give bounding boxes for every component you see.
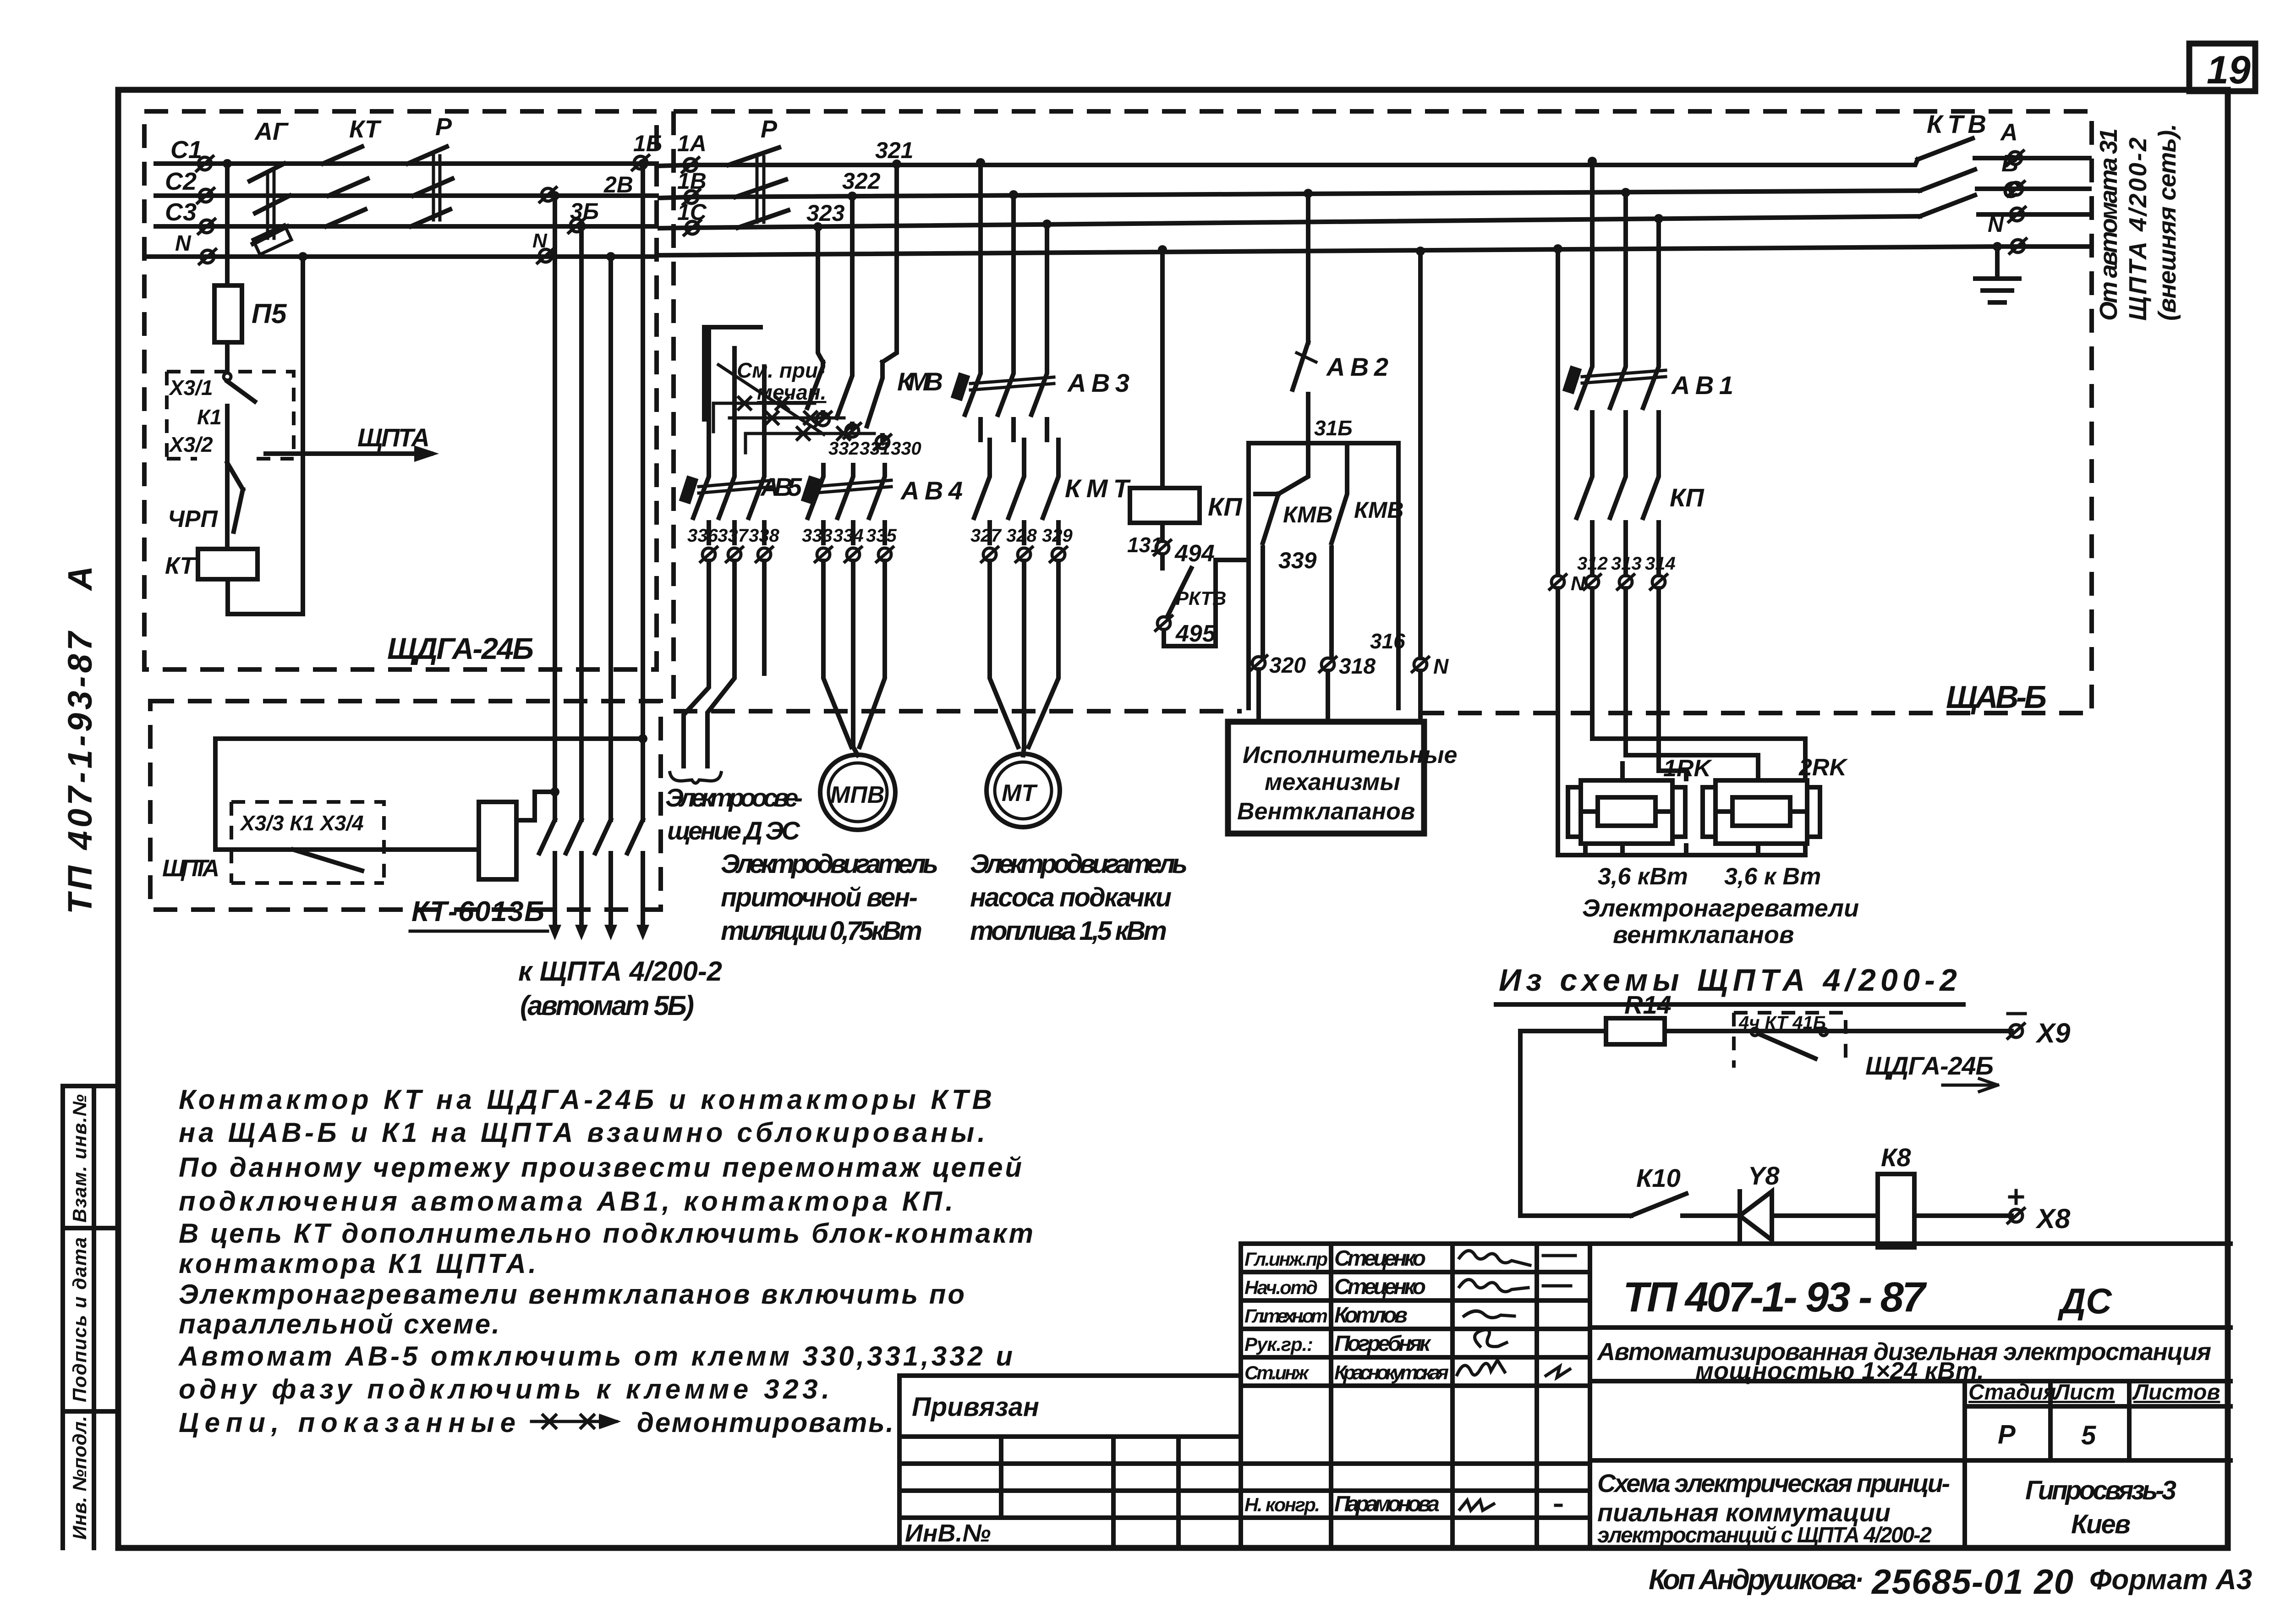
dashed enclosure SchDGA-24B bbox=[144, 111, 657, 669]
svg-text:приточной вен-: приточной вен- bbox=[721, 883, 918, 912]
svg-text:N: N bbox=[532, 230, 548, 252]
terminal 336 bbox=[701, 547, 717, 562]
terminal N heater bbox=[1550, 575, 1566, 589]
wires AB4 to motor MPV bbox=[823, 561, 885, 755]
title block: privyazan box grid bbox=[899, 1376, 1590, 1548]
wires to lighting bbox=[684, 561, 764, 766]
svg-text:В: В bbox=[2001, 150, 2019, 177]
terminal C right bbox=[2009, 207, 2025, 222]
arrows at feeder ends bbox=[548, 925, 649, 940]
contact KT aux bbox=[1751, 1028, 1759, 1036]
left margin column boxes bbox=[63, 1086, 118, 1548]
svg-text:1В: 1В bbox=[677, 168, 707, 194]
wires KMT to motor MT bbox=[990, 561, 1058, 755]
svg-text:АВ3: АВ3 bbox=[1067, 368, 1129, 397]
svg-text:ЩДГА-24Б: ЩДГА-24Б bbox=[1865, 1051, 1994, 1080]
svg-text:ЩДГА-24Б: ЩДГА-24Б bbox=[387, 631, 534, 665]
terminal 320 bbox=[1250, 656, 1267, 670]
dash marks in sig table bbox=[1543, 1256, 1575, 1505]
svg-text:Электродвигатель: Электродвигатель bbox=[970, 849, 1188, 879]
svg-text:1RK: 1RK bbox=[1663, 755, 1712, 782]
contact K1 bbox=[224, 373, 231, 380]
svg-text:Погребняк: Погребняк bbox=[1334, 1332, 1432, 1356]
terminal X9 bbox=[2008, 1024, 2024, 1038]
svg-text:495: 495 bbox=[1175, 620, 1216, 647]
svg-text:Стеценко: Стеценко bbox=[1334, 1246, 1426, 1271]
svg-text:3,6 кВт: 3,6 кВт bbox=[1598, 863, 1688, 890]
notes paragraph bbox=[178, 1084, 1033, 1438]
svg-text:КМВ: КМВ bbox=[1283, 502, 1333, 527]
svg-text:N: N bbox=[175, 231, 192, 256]
heater feed wires bbox=[1558, 588, 1805, 855]
svg-text:топлива 1,5 кВт: топлива 1,5 кВт bbox=[970, 916, 1167, 946]
svg-text:Взам. инв.№: Взам. инв.№ bbox=[69, 1094, 90, 1223]
svg-text:ДС: ДС bbox=[2057, 1281, 2112, 1321]
svg-text:Y8: Y8 bbox=[1748, 1161, 1780, 1190]
svg-text:К10: К10 bbox=[1636, 1163, 1681, 1192]
svg-text:Исполнительные: Исполнительные bbox=[1243, 742, 1457, 768]
terminal C1 bbox=[197, 156, 213, 171]
terminal N right bbox=[2010, 239, 2026, 253]
bus SchPTA arrow bbox=[266, 451, 431, 456]
svg-text:РКТВ: РКТВ bbox=[1176, 587, 1226, 609]
svg-text:ЩПТА: ЩПТА bbox=[162, 855, 219, 882]
svg-text:327: 327 bbox=[970, 526, 1002, 546]
svg-text:313: 313 bbox=[1611, 554, 1642, 574]
motor MPV bbox=[820, 755, 895, 830]
svg-text:333: 333 bbox=[802, 526, 833, 546]
svg-text:X9: X9 bbox=[2035, 1018, 2071, 1048]
svg-text:Р: Р bbox=[435, 113, 452, 141]
bus C1 (left box) bbox=[156, 161, 657, 166]
svg-text:насоса подкачки: насоса подкачки bbox=[970, 883, 1172, 912]
svg-text:АВ1: АВ1 bbox=[1671, 371, 1733, 400]
terminal 494 bbox=[1160, 523, 1165, 541]
contactor KT-60 coil bbox=[479, 802, 516, 879]
svg-text:См. при-: См. при- bbox=[737, 358, 825, 382]
brace lighting bbox=[670, 773, 721, 783]
bus 1C (right box) bbox=[660, 216, 1920, 228]
svg-text:19: 19 bbox=[2207, 48, 2251, 92]
svg-text:ТП 407-1- 93 - 87: ТП 407-1- 93 - 87 bbox=[1623, 1274, 1927, 1321]
svg-text:пиальная коммутации: пиальная коммутации bbox=[1597, 1498, 1891, 1527]
svg-text:339: 339 bbox=[1278, 548, 1317, 573]
svg-text:Р: Р bbox=[761, 115, 778, 143]
svg-text:338: 338 bbox=[749, 526, 779, 546]
coil KP feed bbox=[1158, 245, 1167, 254]
wire C1 down to fuse P5 bbox=[225, 164, 230, 285]
terminal 333 bbox=[815, 547, 832, 562]
terminal 313 bbox=[1617, 575, 1634, 589]
signature rows text bbox=[1244, 1246, 1449, 1516]
svg-text:щение Д ЭС: щение Д ЭС bbox=[667, 816, 801, 845]
svg-text:316: 316 bbox=[1370, 629, 1405, 653]
terminal 314 bbox=[1650, 575, 1667, 589]
svg-text:1С: 1С bbox=[677, 199, 707, 225]
terminal 495 bbox=[1156, 616, 1172, 631]
terminal B right bbox=[2008, 181, 2024, 196]
svg-text:К1: К1 bbox=[197, 405, 222, 429]
svg-text:X3/2: X3/2 bbox=[168, 433, 213, 456]
svg-text:X3/1: X3/1 bbox=[168, 376, 213, 400]
terminal 335 bbox=[877, 547, 893, 562]
svg-text:1А: 1А bbox=[677, 131, 707, 156]
svg-text:АВ2: АВ2 bbox=[1326, 352, 1388, 381]
svg-text:(внешняя сеть).: (внешняя сеть). bbox=[2154, 124, 2181, 321]
svg-text:КМВ: КМВ bbox=[897, 367, 943, 396]
motor MT bbox=[987, 754, 1060, 827]
svg-text:3,6 к Вт: 3,6 к Вт bbox=[1724, 863, 1821, 890]
svg-text:331: 331 bbox=[860, 439, 890, 459]
terminal 312 bbox=[1584, 575, 1600, 589]
svg-text:электростанций с ЩПТА 4/200-2: электростанций с ЩПТА 4/200-2 bbox=[1597, 1523, 1932, 1547]
feeder N down bbox=[608, 257, 613, 930]
svg-text:ЩПТА 4/200-2: ЩПТА 4/200-2 bbox=[2124, 137, 2152, 321]
inner wire loop SchPTA bbox=[215, 739, 643, 850]
svg-text:Коп Андрушкова·: Коп Андрушкова· bbox=[1649, 1564, 1864, 1596]
svg-text:КП: КП bbox=[1208, 492, 1243, 521]
svg-text:N: N bbox=[1571, 572, 1586, 595]
wire 323 bbox=[813, 222, 822, 231]
wire RKTV to KMV box bbox=[1164, 560, 1249, 646]
svg-text:314: 314 bbox=[1645, 554, 1676, 574]
terminal N left bbox=[199, 249, 216, 264]
terminal 1V bbox=[683, 190, 700, 204]
terminal 328 bbox=[1016, 547, 1032, 562]
svg-text:Подпись и дата: Подпись и дата bbox=[69, 1237, 90, 1402]
svg-text:R14: R14 bbox=[1624, 990, 1672, 1019]
box around KMV aux contacts bbox=[1249, 443, 1398, 708]
svg-text:323: 323 bbox=[806, 200, 845, 226]
feeder 3B down bbox=[579, 226, 584, 930]
svg-text:Парамонова: Парамонова bbox=[1334, 1492, 1440, 1516]
wire N from bus to actuator bbox=[1416, 247, 1425, 256]
svg-text:С: С bbox=[2002, 177, 2020, 203]
breaker AB1 feeds bbox=[1588, 157, 1597, 166]
terminal 337 bbox=[726, 547, 743, 562]
feeder 1B down bbox=[641, 164, 645, 930]
terminal 338 bbox=[756, 547, 773, 562]
svg-text:Листов: Листов bbox=[2132, 1380, 2220, 1405]
wires AB3 feed from buses bbox=[976, 158, 985, 167]
svg-text:1Б: 1Б bbox=[633, 131, 662, 156]
svg-text:АВ4: АВ4 bbox=[900, 476, 963, 505]
svg-text:АГ: АГ bbox=[254, 118, 289, 145]
wire N to heater column bbox=[1553, 244, 1562, 253]
svg-text:А: А bbox=[2000, 119, 2018, 146]
svg-text:Вентклапанов: Вентклапанов bbox=[1237, 798, 1415, 825]
svg-text:329: 329 bbox=[1042, 526, 1073, 546]
svg-text:322: 322 bbox=[842, 168, 881, 194]
contact blades on feeders bbox=[539, 820, 643, 853]
svg-text:Краснокутская: Краснокутская bbox=[1334, 1361, 1449, 1384]
resistor R14 bbox=[1606, 1018, 1665, 1044]
svg-text:X8: X8 bbox=[2035, 1203, 2071, 1234]
svg-text:механизмы: механизмы bbox=[1265, 769, 1400, 796]
terminal A right bbox=[2007, 151, 2023, 165]
svg-text:Электронагреватели: Электронагреватели bbox=[1582, 894, 1859, 922]
wires to right edge bbox=[2011, 158, 2089, 214]
svg-text:25685-01 20: 25685-01 20 bbox=[1871, 1563, 2073, 1602]
svg-text:мощностью 1×24 кВт.: мощностью 1×24 кВт. bbox=[1695, 1357, 1984, 1385]
terminal 334 bbox=[845, 547, 861, 562]
svg-text:к ЩПТА 4/200-2: к ЩПТА 4/200-2 bbox=[518, 956, 722, 987]
svg-text:Из схемы ЩПТА 4/200-2: Из схемы ЩПТА 4/200-2 bbox=[1499, 963, 1957, 998]
terminal 329 bbox=[1050, 547, 1067, 562]
svg-text:От автомата 31: От автомата 31 bbox=[2095, 128, 2122, 321]
title block: signature table grid bbox=[1241, 1244, 1590, 1548]
contact RKTV bbox=[1162, 554, 1191, 616]
terminal 1A bbox=[682, 158, 699, 172]
svg-text:334: 334 bbox=[833, 526, 864, 546]
wires AB5 feed from top bbox=[709, 327, 764, 465]
svg-text:X3/3 К1 X3/4: X3/3 К1 X3/4 bbox=[239, 811, 364, 835]
demount arrow symbol bbox=[532, 1416, 616, 1427]
bus C2 (left box) bbox=[156, 193, 657, 198]
svg-text:Рук.гр.:: Рук.гр.: bbox=[1244, 1333, 1313, 1355]
svg-text:КТ: КТ bbox=[165, 553, 197, 579]
svg-text:ИнВ.№: ИнВ.№ bbox=[905, 1520, 991, 1547]
svg-text:В цепь КТ дополнительно по: В цепь КТ дополнительно подключить блок-… bbox=[179, 1218, 1033, 1249]
svg-text:(автомат 5Б): (автомат 5Б) bbox=[520, 990, 694, 1021]
svg-text:МПВ: МПВ bbox=[830, 782, 884, 808]
svg-text:320: 320 bbox=[1269, 653, 1306, 678]
wire K8 to X8 bbox=[1914, 1213, 2011, 1218]
svg-text:494: 494 bbox=[1174, 540, 1215, 567]
svg-text:335: 335 bbox=[866, 526, 897, 546]
svg-text:Электроосве-: Электроосве- bbox=[665, 783, 803, 812]
terminal 330 bbox=[874, 435, 891, 450]
actuator box bbox=[1228, 722, 1424, 834]
svg-text:Гипросвязь-3: Гипросвязь-3 bbox=[2025, 1476, 2176, 1505]
svg-text:мечан.: мечан. bbox=[757, 380, 826, 404]
svg-text:2В: 2В bbox=[603, 172, 633, 198]
dashed box KT contact bbox=[1734, 1013, 1846, 1068]
KMV aux contact 2 bbox=[1332, 443, 1398, 657]
svg-text:Электронагреватели вентклапа: Электронагреватели вентклапанов включить… bbox=[179, 1279, 965, 1310]
coil KT bbox=[198, 549, 258, 579]
terminal N mid bbox=[537, 248, 554, 263]
contact K1 in SchPTA bbox=[293, 850, 362, 871]
svg-text:на ЩАВ-Б и К1 на ЩПТА вз: на ЩАВ-Б и К1 на ЩПТА взаимно сблокирова… bbox=[179, 1117, 985, 1148]
svg-text:Ст.инж: Ст.инж bbox=[1244, 1362, 1310, 1383]
sheet number box 19 bbox=[2189, 44, 2255, 91]
svg-text:ЧРП: ЧРП bbox=[168, 506, 219, 532]
wire R14 to X9 bbox=[1665, 1029, 2011, 1033]
demounted wires with x marks bbox=[713, 403, 874, 453]
svg-text:5: 5 bbox=[2081, 1421, 2096, 1450]
rotated note Ot avtomata 31 bbox=[2095, 124, 2181, 321]
svg-text:2RK: 2RK bbox=[1798, 754, 1848, 781]
svg-text:Автомат АВ-5 отключить от: Автомат АВ-5 отключить от клемм 330,331,… bbox=[178, 1341, 1013, 1372]
svg-text:337: 337 bbox=[718, 526, 749, 546]
leader diagonal for remark bbox=[718, 365, 824, 434]
bus 1V (right box) bbox=[660, 191, 1920, 198]
dashed box X3/3 K1 X3/4 bbox=[231, 802, 384, 883]
sub circuit left wire bbox=[1520, 1031, 1617, 1216]
wire coil bottom loop to N drop bbox=[228, 257, 303, 614]
svg-text:321: 321 bbox=[875, 137, 913, 163]
title block: right part grid bbox=[1590, 1244, 2231, 1548]
wire 322 bbox=[848, 192, 857, 201]
svg-text:31Б: 31Б bbox=[1314, 416, 1353, 440]
svg-text:Схема электрическая принци-: Схема электрическая принци- bbox=[1597, 1469, 1950, 1498]
terminal X8 bbox=[2008, 1208, 2024, 1223]
svg-text:N: N bbox=[1433, 654, 1449, 678]
svg-text:336: 336 bbox=[687, 526, 718, 546]
svg-text:вентклапанов: вентклапанов bbox=[1613, 921, 1794, 949]
svg-text:Лист: Лист bbox=[2053, 1380, 2115, 1405]
svg-text:ЩАВ-Б: ЩАВ-Б bbox=[1946, 679, 2047, 715]
svg-text:Нач.отд: Нач.отд bbox=[1244, 1277, 1318, 1298]
wire to KT coil bbox=[225, 463, 230, 549]
svg-text:С2: С2 bbox=[165, 168, 197, 195]
junction C1 to fuse bbox=[223, 159, 232, 168]
svg-text:Стеценко: Стеценко bbox=[1334, 1275, 1426, 1299]
svg-text:Н. конгр.: Н. конгр. bbox=[1244, 1494, 1320, 1515]
bus N (full width) bbox=[148, 247, 2089, 257]
svg-text:Гл.техн.от: Гл.техн.от bbox=[1244, 1305, 1328, 1327]
svg-text:КТВ: КТВ bbox=[1927, 110, 1986, 138]
fuse P5 bbox=[214, 285, 242, 342]
svg-text:Киев: Киев bbox=[2071, 1509, 2131, 1539]
terminal N actuator bbox=[1412, 657, 1429, 672]
feeder 2B down bbox=[553, 196, 557, 930]
terminal 1C bbox=[684, 220, 701, 235]
svg-text:КП: КП bbox=[1670, 483, 1705, 512]
svg-text:МТ: МТ bbox=[1002, 780, 1038, 807]
wire 321 bbox=[892, 159, 901, 169]
terminal C3 bbox=[198, 219, 215, 234]
svg-text:Формат А3: Формат А3 bbox=[2089, 1564, 2252, 1596]
coil KP bbox=[1130, 488, 1200, 523]
svg-text:332: 332 bbox=[828, 439, 859, 459]
terminal C2 bbox=[197, 188, 214, 203]
svg-text:К8: К8 bbox=[1881, 1143, 1911, 1172]
terminal 331 bbox=[844, 423, 860, 438]
svg-text:318: 318 bbox=[1339, 654, 1376, 679]
svg-text:П5: П5 bbox=[252, 298, 287, 329]
signatures scribbles bbox=[1457, 1251, 1570, 1510]
svg-text:Р: Р bbox=[1998, 1420, 2016, 1449]
dashed box X3 terminals bbox=[167, 372, 294, 459]
terminal 332 bbox=[815, 412, 831, 427]
svg-text:3Б: 3Б bbox=[570, 198, 599, 224]
svg-text:312: 312 bbox=[1577, 554, 1608, 574]
bus C3 (left box) bbox=[156, 224, 657, 229]
svg-text:Привязан: Привязан bbox=[912, 1392, 1039, 1422]
svg-text:N: N bbox=[1988, 213, 2004, 237]
svg-text:Инв. №подл.: Инв. №подл. bbox=[69, 1416, 90, 1540]
bus 1A (right box) bbox=[660, 159, 1918, 166]
wire loop left of KMV bbox=[704, 327, 761, 419]
terminal 318 bbox=[1320, 657, 1336, 672]
KMV aux contact 1 bbox=[1255, 443, 1308, 657]
svg-text:Гл.инж.пр: Гл.инж.пр bbox=[1244, 1248, 1328, 1270]
svg-text:328: 328 bbox=[1006, 526, 1037, 546]
svg-text:КТ: КТ bbox=[349, 115, 382, 143]
svg-text:330: 330 bbox=[891, 439, 921, 459]
svg-text:ЩПТА: ЩПТА bbox=[357, 423, 430, 452]
terminal 1B on C1 bbox=[632, 155, 649, 170]
svg-text:КТ-6013Б: КТ-6013Б bbox=[411, 896, 544, 927]
svg-text:Котлов: Котлов bbox=[1334, 1303, 1408, 1328]
dashed enclosure SchPTA bbox=[150, 701, 661, 910]
wire 31B from AB2 bbox=[1304, 189, 1313, 198]
svg-text:С1: С1 bbox=[170, 136, 202, 164]
svg-text:КМВ: КМВ bbox=[1354, 497, 1404, 523]
terminal 3B on C3 bbox=[569, 218, 585, 233]
svg-text:тиляции 0,75кВт: тиляции 0,75кВт bbox=[721, 916, 922, 946]
svg-text:С3: С3 bbox=[165, 198, 197, 226]
breaker AB2 bbox=[1293, 342, 1308, 437]
terminal 2B on C2 bbox=[540, 187, 556, 202]
svg-text:Стадия: Стадия bbox=[1968, 1380, 2056, 1405]
svg-text:демонтировать.: демонтировать. bbox=[637, 1407, 893, 1438]
svg-text:По данному чертежу произвес: По данному чертежу произвести перемонтаж… bbox=[179, 1152, 1022, 1183]
terminal 327 bbox=[981, 547, 998, 562]
dashed enclosure SchAV-B bbox=[674, 111, 2092, 713]
junction N drop bbox=[298, 252, 307, 261]
svg-text:Электродвигатель: Электродвигатель bbox=[721, 849, 938, 879]
svg-text:КМТ: КМТ bbox=[1065, 474, 1131, 503]
ground bbox=[1993, 242, 2002, 251]
